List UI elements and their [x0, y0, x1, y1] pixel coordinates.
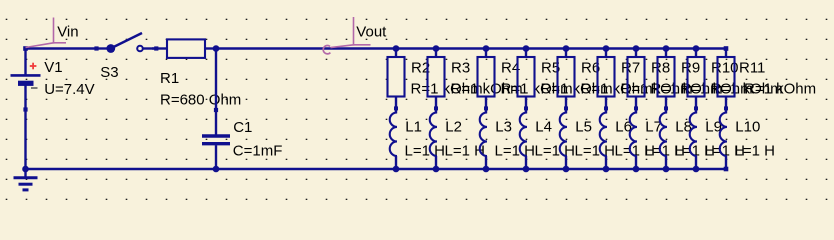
svg-text:Vout: Vout — [356, 24, 387, 41]
svg-text:L10: L10 — [735, 119, 760, 136]
junction bottom rail / L7 — [633, 166, 640, 173]
resistor R5 — [518, 49, 535, 114]
svg-text:R1: R1 — [160, 70, 179, 87]
resistor R1 — [154, 39, 205, 58]
junction top rail / R3 — [433, 45, 440, 52]
wire C1 top lead — [215, 49, 217, 135]
junction top rail / R8 — [633, 45, 640, 52]
junction node Vout (R1 / C1 / rail) — [213, 45, 220, 52]
svg-text:C1: C1 — [233, 119, 252, 136]
inductor L6 — [600, 112, 607, 169]
inductor L4 — [520, 112, 527, 169]
inductor L3 — [480, 112, 487, 169]
junction top rail / R10 — [693, 45, 700, 52]
inductor L7 — [630, 112, 637, 169]
wire R1 to node Vout — [205, 47, 216, 49]
switch S3 — [94, 33, 156, 53]
svg-text:L=1 H: L=1 H — [495, 142, 535, 159]
voltage source V1 — [11, 63, 41, 112]
junction top rail / R6 — [563, 45, 570, 52]
wire battery top lead — [24, 49, 26, 75]
wire Vin corner to switch — [26, 47, 97, 49]
wire C1 bottom lead — [215, 145, 217, 169]
resistor R10 — [688, 49, 705, 114]
svg-text:R7: R7 — [621, 59, 640, 76]
junction bottom rail / L5 — [563, 166, 570, 173]
inductor L1 — [390, 112, 397, 169]
top rail end square at R11 branch — [724, 46, 729, 51]
svg-text:V1: V1 — [44, 59, 62, 76]
junction top rail / R9 — [663, 45, 670, 52]
svg-text:L=1 H: L=1 H — [575, 142, 615, 159]
wire battery bottom lead — [24, 86, 26, 170]
inductor L2 — [430, 112, 437, 169]
svg-text:L5: L5 — [575, 119, 592, 136]
junction top rail / R4 — [483, 45, 490, 52]
junction top rail / R2 — [393, 45, 400, 52]
junction bottom rail / L1 — [393, 166, 400, 173]
junction bottom rail / L4 — [523, 166, 530, 173]
junction top rail / R5 — [523, 45, 530, 52]
svg-text:C=1mF: C=1mF — [233, 142, 283, 159]
svg-text:U=7.4V: U=7.4V — [44, 81, 94, 98]
ground symbol (left) — [14, 169, 38, 190]
svg-text:S3: S3 — [100, 64, 118, 81]
node Vin label flag — [26, 18, 67, 48]
svg-text:R9: R9 — [681, 59, 700, 76]
svg-text:L2: L2 — [445, 119, 462, 136]
junction top rail / R7 — [603, 45, 610, 52]
junction at ground (left) — [22, 166, 29, 173]
junction bottom rail / L9 — [693, 166, 700, 173]
inductor L5 — [560, 112, 567, 169]
bottom rail end square at L10 branch — [724, 167, 729, 172]
svg-text:R=1 kOhm: R=1 kOhm — [744, 80, 816, 97]
junction bottom rail / L6 — [603, 166, 610, 173]
inductor L9 — [690, 112, 697, 169]
junction bottom rail / L2 — [433, 166, 440, 173]
svg-text:R=680 Ohm: R=680 Ohm — [160, 92, 241, 109]
junction C1 at ground rail — [213, 166, 220, 173]
inductor L10 — [720, 112, 727, 169]
svg-text:Vin: Vin — [57, 23, 78, 40]
junction bottom rail / L8 — [663, 166, 670, 173]
capacitor C1 — [202, 108, 230, 144]
resistor R6 — [558, 49, 575, 114]
svg-text:L3: L3 — [495, 119, 512, 136]
svg-text:L4: L4 — [535, 119, 552, 136]
resistor R3 — [428, 49, 445, 114]
wire switch to R1 — [152, 47, 167, 49]
inductor L8 — [660, 112, 667, 169]
svg-text:L=1 H: L=1 H — [405, 142, 445, 159]
wire corner junction square at Vin node — [23, 46, 28, 51]
resistor R2 — [388, 49, 405, 114]
resistor R7 — [598, 49, 615, 114]
svg-text:R11: R11 — [739, 59, 765, 76]
top rail wire (Vout bus) — [216, 47, 726, 49]
resistor R4 — [478, 49, 495, 114]
resistor R8 — [628, 49, 645, 114]
svg-text:L=1 H: L=1 H — [535, 142, 575, 159]
bottom ground rail wire — [26, 168, 727, 170]
svg-text:L1: L1 — [405, 119, 422, 136]
resistor R9 — [658, 49, 675, 114]
svg-text:R3: R3 — [451, 59, 470, 76]
svg-text:L=1 H: L=1 H — [445, 142, 485, 159]
node Vout label flag — [323, 17, 370, 54]
junction bottom rail / L3 — [483, 166, 490, 173]
resistor R11 — [718, 49, 735, 114]
svg-text:R8: R8 — [651, 59, 670, 76]
svg-text:L=1 H: L=1 H — [735, 142, 775, 159]
